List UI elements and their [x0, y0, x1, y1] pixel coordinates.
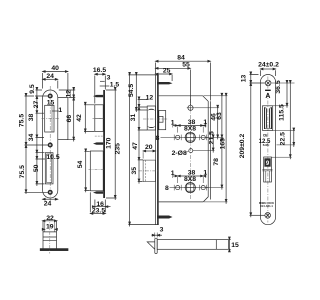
- svg-text:42: 42: [76, 114, 83, 122]
- dim 16.5: [95, 73, 106, 75]
- deadbolt centerline: [139, 170, 159, 172]
- spindle hidden dash: [95, 135, 105, 137]
- ext lines left chain: [35, 90, 48, 159]
- svg-text:16.5: 16.5: [93, 67, 106, 74]
- svg-text:21.5: 21.5: [209, 131, 216, 144]
- svg-text:13: 13: [241, 75, 248, 83]
- dim 40: [43, 71, 68, 73]
- svg-text:19: 19: [46, 224, 54, 231]
- svg-text:3: 3: [160, 227, 164, 234]
- lower hub left hole: [176, 186, 180, 190]
- svg-text:20: 20: [145, 144, 153, 151]
- dim 3 latch: [152, 234, 163, 236]
- svg-text:40: 40: [51, 65, 59, 72]
- deadbolt hidden: [143, 160, 155, 182]
- svg-text:U9 LA51-1: U9 LA51-1: [260, 204, 273, 208]
- svg-text:36.5: 36.5: [275, 80, 282, 93]
- dim 1.5 tick: [100, 85, 110, 87]
- upper hub row: dim 1/38/1: [173, 125, 206, 127]
- section box outline: [43, 221, 57, 249]
- deadbolt flange: [262, 170, 272, 171]
- dim 55: [156, 67, 191, 69]
- dim 19 arrows: [42, 228, 57, 230]
- svg-text:8X8: 8X8: [184, 126, 196, 133]
- svg-text:23.5: 23.5: [92, 208, 105, 215]
- deadbolt opening: [264, 157, 272, 182]
- dim line left outer 75.5/75.5: [25, 94, 27, 194]
- svg-text:235: 235: [114, 143, 121, 155]
- dim 84: [156, 60, 211, 62]
- dim 15 latch: [228, 238, 230, 252]
- svg-text:170: 170: [105, 137, 112, 149]
- svg-text:35: 35: [131, 167, 138, 175]
- dim 165 line: [225, 94, 227, 204]
- screw hole bottom: [48, 191, 52, 195]
- dim 13 line: [250, 72, 252, 84]
- svg-text:66: 66: [66, 115, 73, 123]
- latch cutout: [45, 105, 54, 132]
- dim 24±0.2: [260, 68, 275, 70]
- deadbolt block: [264, 158, 270, 166]
- upper hub left hole: [176, 135, 180, 139]
- latch case box: [95, 105, 103, 132]
- vertical centerline case: [189, 99, 191, 200]
- dim 54 line: [85, 149, 87, 192]
- upper hub right hole: [201, 135, 205, 139]
- faceplate edge (thick): [103, 90, 105, 198]
- dim 235 line: [129, 73, 131, 227]
- case outline: [159, 96, 209, 202]
- latch center dashline: [93, 118, 105, 120]
- latch centerline: [143, 118, 169, 120]
- dim 54.5 line: [135, 73, 137, 112]
- dim 209 line: [250, 83, 252, 217]
- svg-text:75.5: 75.5: [19, 165, 26, 178]
- svg-text:47: 47: [132, 142, 139, 150]
- svg-text:27: 27: [33, 101, 40, 109]
- deadbolt case box: [90, 151, 103, 191]
- tab top (view3): [157, 82, 173, 84]
- dim chain 12/31/47/35: [138, 98, 140, 184]
- upper hole Ø8: [188, 105, 193, 110]
- svg-text:25: 25: [163, 68, 171, 75]
- screw hole top: [48, 94, 52, 98]
- ext lines 40: [43, 73, 68, 96]
- svg-text:1.5: 1.5: [110, 82, 120, 89]
- dim 50 line: [36, 151, 38, 187]
- svg-text:78: 78: [213, 158, 220, 166]
- screw hole bottom (cross): [265, 213, 271, 219]
- svg-text:38: 38: [28, 114, 35, 122]
- svg-text:1: 1: [203, 170, 207, 177]
- svg-text:8: 8: [165, 185, 169, 192]
- svg-text:10.5: 10.5: [46, 154, 59, 161]
- lower spindle hub: [185, 183, 195, 193]
- svg-text:1: 1: [58, 107, 62, 114]
- svg-text:63: 63: [216, 112, 223, 120]
- latch body segment line: [215, 240, 217, 250]
- tick 1 (view1): [52, 110, 59, 112]
- mounting tab top: [93, 95, 103, 97]
- dim 25: [156, 73, 173, 75]
- svg-text:12: 12: [66, 90, 73, 98]
- mounting tab mid: [93, 142, 103, 144]
- latch cutout inner line: [51, 105, 53, 132]
- dim 42 line: [84, 103, 86, 134]
- svg-text:209±0.2: 209±0.2: [239, 134, 246, 159]
- svg-text:1: 1: [171, 170, 175, 177]
- svg-text:8: 8: [156, 135, 160, 142]
- hole 2-Ø8: [189, 149, 193, 153]
- latch opening: [263, 106, 273, 131]
- latch centerline: [42, 118, 60, 120]
- deadbolt case center dash: [89, 169, 105, 171]
- deadbolt rod lines: [266, 171, 270, 182]
- lower hub centerline: [171, 187, 208, 189]
- deadbolt cutout inner: [47, 154, 52, 183]
- faceplate centerline: [267, 77, 269, 223]
- svg-text:15: 15: [47, 100, 55, 107]
- latch housing inner box: [159, 116, 163, 122]
- svg-text:75.5: 75.5: [18, 114, 25, 127]
- latch bevel crescents: [147, 109, 155, 111]
- svg-text:31: 31: [130, 114, 137, 122]
- svg-text:24: 24: [46, 73, 54, 80]
- centerline strike: [49, 86, 51, 203]
- deadbolt cutout: [45, 153, 53, 184]
- dim 16 bottom: [95, 206, 111, 208]
- dim 23.5 bottom: [90, 213, 105, 215]
- latch case mid line: [95, 118, 103, 120]
- svg-text:165: 165: [220, 138, 227, 150]
- svg-text:24: 24: [44, 200, 52, 207]
- svg-text:22.5: 22.5: [279, 132, 286, 145]
- latch bolt protruding: [147, 106, 155, 130]
- dim 63/78 line: [221, 94, 223, 190]
- dim 115.5 line: [289, 81, 291, 159]
- faceplate front line: [155, 75, 157, 225]
- brand glyph: [265, 90, 271, 91]
- ext line 24: [57, 81, 59, 89]
- svg-text:55: 55: [182, 61, 190, 68]
- dim 20 (throw): [143, 150, 155, 152]
- screw hole mid: [48, 143, 52, 147]
- svg-text:1: 1: [203, 119, 207, 126]
- latch front bars: [265, 107, 272, 129]
- mounting tab bottom: [93, 191, 103, 193]
- tab bottom (view3): [157, 216, 173, 219]
- case back second line: [209, 101, 211, 199]
- faceplate back (thick): [157, 75, 159, 225]
- faceplate outline: [260, 75, 275, 225]
- leader 8 lower: [170, 187, 172, 189]
- svg-text:22: 22: [46, 215, 54, 222]
- lower hub row: dim 1/38/1: [173, 175, 206, 177]
- latch bevel: [147, 242, 155, 249]
- svg-text:B-WH: B-WH: [263, 144, 270, 147]
- dim 21.5 line: [212, 135, 214, 152]
- latch front curves: [265, 108, 272, 129]
- dim 36.5 line: [286, 81, 288, 108]
- strike lip box: [58, 98, 68, 140]
- dim 24 bottom: [43, 198, 58, 200]
- dim 170 line: [114, 88, 116, 200]
- section centerline: [49, 218, 51, 254]
- svg-text:A: A: [265, 93, 270, 100]
- dim 24 top: [43, 78, 58, 80]
- svg-text:24±0.2: 24±0.2: [258, 61, 279, 68]
- svg-text:2-Ø8: 2-Ø8: [172, 150, 187, 157]
- faceplate top/bottom edges: [156, 75, 159, 225]
- latch body: [157, 240, 228, 250]
- upper spindle hub: [185, 132, 195, 142]
- latch housing: [159, 111, 166, 130]
- svg-text:1: 1: [171, 119, 175, 126]
- dim 46 line: [217, 106, 219, 140]
- dim 22.5 line: [293, 129, 295, 147]
- svg-text:8X8: 8X8: [184, 176, 196, 183]
- latch flange: [155, 238, 157, 253]
- svg-text:54.5: 54.5: [128, 84, 135, 97]
- svg-text:15: 15: [231, 242, 239, 249]
- svg-text:9.5: 9.5: [29, 84, 36, 94]
- dim 3 tick: [100, 80, 105, 82]
- section base plate: [40, 249, 68, 251]
- svg-text:54: 54: [77, 161, 84, 169]
- upper hub centerline: [171, 136, 208, 138]
- svg-text:3: 3: [107, 75, 111, 82]
- svg-text:50: 50: [33, 164, 40, 172]
- strike plate outline: [43, 90, 58, 198]
- ext lines 12/66: [59, 90, 76, 140]
- lower hub right hole: [201, 186, 205, 190]
- svg-text:115.5: 115.5: [279, 104, 286, 121]
- screw hole top (cross): [265, 80, 271, 86]
- dim line right 12/66: [73, 88, 75, 142]
- section box inner walls: [45, 221, 55, 232]
- dim line left inner 9.5/27/38/34: [36, 88, 38, 160]
- leader 8 upper: [161, 136, 172, 138]
- svg-text:CE: CE: [263, 134, 268, 138]
- dim 22: [42, 220, 57, 222]
- svg-text:34: 34: [28, 134, 35, 142]
- svg-text:12: 12: [146, 95, 154, 102]
